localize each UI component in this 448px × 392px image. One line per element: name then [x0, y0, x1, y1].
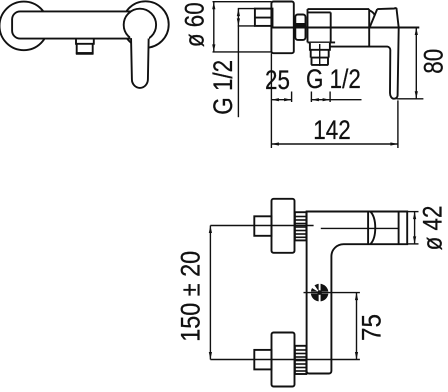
- svg-text:G 1/2: G 1/2: [208, 60, 238, 115]
- svg-text:75: 75: [357, 314, 387, 341]
- svg-text:ø 60: ø 60: [180, 2, 210, 47]
- svg-text:142: 142: [313, 115, 350, 145]
- svg-text:80: 80: [418, 49, 448, 74]
- svg-text:ø 42: ø 42: [418, 206, 448, 251]
- svg-text:150 ± 20: 150 ± 20: [175, 251, 205, 342]
- svg-text:25: 25: [265, 65, 290, 95]
- svg-text:G 1/2: G 1/2: [306, 64, 361, 94]
